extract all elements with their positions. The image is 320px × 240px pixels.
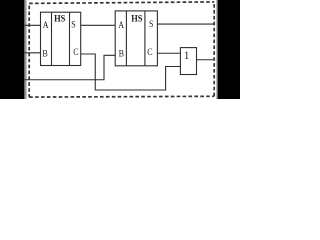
svg-text:HS: HS bbox=[131, 13, 142, 24]
svg-text:C: C bbox=[73, 46, 78, 57]
svg-text:HS: HS bbox=[54, 13, 65, 24]
svg-text:A: A bbox=[43, 19, 49, 30]
svg-text:B: B bbox=[119, 48, 124, 59]
svg-text:A: A bbox=[118, 19, 124, 30]
svg-text:S: S bbox=[71, 19, 76, 30]
svg-text:1: 1 bbox=[184, 49, 189, 62]
svg-text:C: C bbox=[147, 46, 152, 57]
svg-text:B: B bbox=[42, 48, 47, 59]
svg-text:S: S bbox=[149, 18, 154, 29]
